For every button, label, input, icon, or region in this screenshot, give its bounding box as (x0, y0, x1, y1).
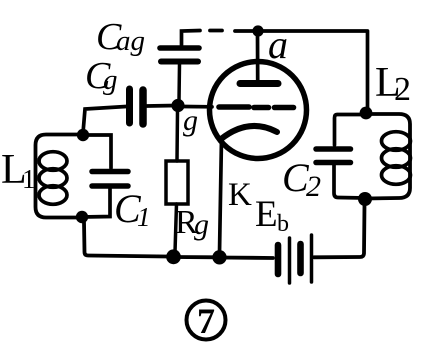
label g (183, 104, 198, 137)
label Cag (96, 16, 145, 58)
wire: tank bottom down to ground rail (84, 222, 167, 257)
triode tube envelope (210, 62, 307, 159)
node a junction dot (252, 25, 263, 36)
svg-text:g: g (183, 104, 198, 137)
label C1 (114, 186, 151, 232)
triode cathode arc (221, 126, 277, 139)
wire: anode lead from node a down into tube (256, 34, 260, 80)
node: cathode bottom rail junction (212, 250, 226, 264)
label a (268, 22, 288, 67)
svg-text:a: a (268, 22, 288, 67)
resistor Rg (166, 161, 188, 204)
node: L1 tank bottom junction (76, 211, 88, 223)
wire: Rg top lead from node g (175, 111, 179, 161)
svg-text:7: 7 (197, 301, 215, 341)
label Cg (85, 55, 118, 97)
svg-text:2: 2 (394, 71, 411, 108)
wire: grid lead from node g into tube (dashed grid) (184, 107, 294, 108)
triode anode plate bar (240, 80, 278, 87)
svg-text:1: 1 (22, 164, 36, 194)
wire: cathode lead K down to bottom rail (220, 138, 222, 253)
capacitor Cg (130, 89, 144, 124)
wire: bottom rail K node to battery (219, 256, 273, 260)
inductor L1 (36, 135, 84, 218)
wire: C2 bottom lead to tank bottom (334, 165, 365, 198)
capacitor Cag (160, 48, 199, 62)
wire: bottom rail Rg node to K node (173, 255, 219, 259)
svg-text:g: g (103, 64, 118, 96)
wire: from L1 tank top node up and right to Cg (83, 107, 126, 134)
capacitor C1 (92, 172, 128, 187)
node g junction dot (171, 99, 184, 112)
node: L2 tank top junction (360, 107, 373, 120)
wire: right vertical drop from top rail to L2 tank top (366, 31, 370, 110)
wire: Cag bottom lead down to node g (177, 64, 181, 101)
wire: battery to right riser up to L2 tank bottom (314, 204, 365, 257)
battery Eb (278, 235, 312, 283)
svg-text:1: 1 (137, 202, 151, 232)
svg-text:K: K (228, 177, 252, 213)
svg-text:g: g (194, 208, 209, 241)
node: L2 tank bottom junction (358, 192, 372, 206)
inductor L2 (365, 114, 411, 199)
label L1 (1, 147, 36, 194)
node: L1 tank top junction (77, 129, 89, 141)
label L2 (375, 60, 411, 108)
wire: C1 bottom lead to tank bottom (82, 189, 110, 217)
wire: Cg to node g (147, 104, 176, 108)
wire: dashed link from Cag to node a (182, 31, 259, 46)
wire: top rail from node a to right corner (258, 29, 366, 33)
figure number 7 (187, 301, 226, 342)
node: Rg bottom rail junction (166, 249, 181, 264)
capacitor C2 (316, 149, 351, 163)
label K (228, 177, 252, 213)
label Eb (255, 194, 289, 237)
svg-text:ag: ag (116, 25, 145, 57)
wire: tank top to C1 (88, 135, 111, 168)
svg-text:b: b (277, 211, 289, 237)
label C2 (282, 155, 321, 203)
svg-text:E: E (255, 194, 278, 235)
wire: Rg bottom lead (175, 204, 177, 252)
svg-text:2: 2 (306, 170, 321, 203)
label Rg (175, 204, 209, 241)
wire: tank top to C2 (335, 115, 367, 146)
